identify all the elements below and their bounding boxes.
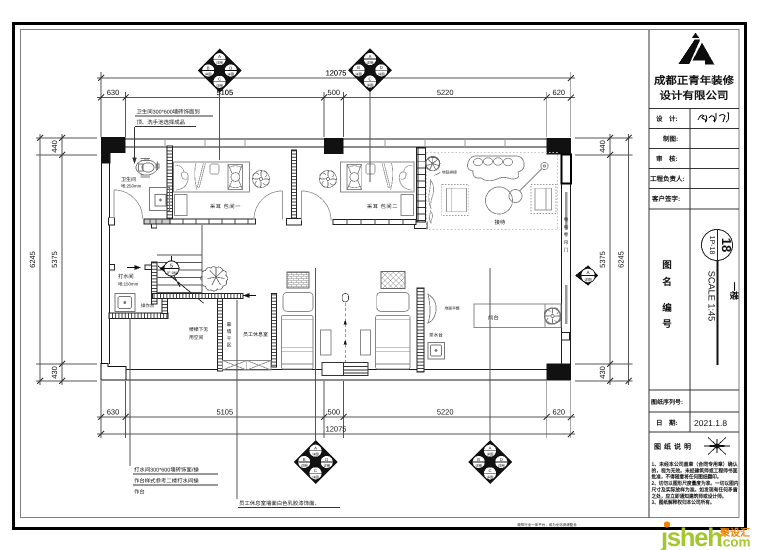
svg-text:详图: 详图 [205, 73, 212, 77]
svg-text:之处，应立即通知建筑师或设计师。: 之处，应立即通知建筑师或设计师。 [652, 493, 727, 500]
wall room2-right ladder [417, 148, 426, 227]
svg-text:详图: 详图 [367, 61, 374, 65]
room1 door leaf+arc [254, 191, 283, 220]
designer signature scribble [698, 112, 729, 122]
svg-text:2、切勿以图形尺度量度为准。一切以图内: 2、切勿以图形尺度量度为准。一切以图内 [652, 480, 739, 487]
svg-text:图纸说明: 图纸说明 [654, 442, 694, 451]
svg-text:员工休息室墙面白色乳胶漆饰面、: 员工休息室墙面白色乳胶漆饰面、 [239, 500, 320, 507]
svg-text:500: 500 [328, 88, 341, 97]
svg-text:C: C [314, 468, 317, 473]
svg-text:12075: 12075 [326, 69, 347, 78]
svg-text:630: 630 [107, 88, 120, 97]
leader to toilet [133, 127, 136, 163]
leader line marker3 [315, 268, 317, 440]
annotation toilet tiles top [135, 109, 213, 127]
svg-text:6245: 6245 [28, 251, 37, 268]
svg-text:A: A [314, 446, 317, 451]
top exterior wall [101, 139, 571, 147]
row labels 设计/制图/审核/工程负责人/客户签字 [650, 115, 685, 203]
svg-text:C: C [218, 77, 221, 82]
svg-text:卫生间: 卫生间 [121, 176, 136, 183]
svg-text:详图: 详图 [227, 73, 234, 77]
tea sink [428, 343, 445, 360]
svg-text:详图: 详图 [312, 453, 319, 457]
svg-text:3、图纸解释权归本公司所有。: 3、图纸解释权归本公司所有。 [652, 499, 715, 506]
svg-text:茶水台: 茶水台 [429, 333, 443, 338]
column bottom-left outlined [101, 364, 126, 381]
staff sofa B seats [376, 292, 411, 369]
column top-right (620) [547, 138, 571, 155]
compass star [702, 437, 733, 456]
elevation marker bottom-2 [468, 440, 512, 484]
elevation marker bottom-1 [294, 440, 338, 484]
svg-text:员工休息室: 员工休息室 [243, 331, 268, 338]
toilet door leaf+arc [114, 190, 143, 219]
water room sink [115, 294, 135, 312]
svg-text:成都正青年装修: 成都正青年装修 [654, 74, 735, 87]
plant by stairs [201, 267, 228, 291]
counter 操作台 side [162, 299, 168, 314]
svg-text:B: B [357, 65, 360, 70]
svg-text:靠墙干区: 靠墙干区 [226, 321, 231, 349]
left exterior wall [102, 153, 110, 364]
svg-text:详图: 详图 [584, 277, 592, 282]
room1 ceiling fan [252, 170, 270, 188]
svg-text:5105: 5105 [216, 88, 233, 97]
leader staff room [236, 300, 238, 499]
staff sofa A seats [282, 292, 314, 369]
leader water room [129, 318, 131, 466]
svg-text:顶、洗手池选择成品: 顶、洗手池选择成品 [137, 119, 186, 126]
notes small text [651, 461, 739, 506]
svg-text:详图: 详图 [301, 464, 308, 468]
svg-text:5105: 5105 [216, 408, 233, 417]
svg-text:6245: 6245 [617, 251, 626, 268]
room1 bed platform [174, 162, 250, 192]
svg-text:批准，不得随意将任何图纸翻印。: 批准，不得随意将任何图纸翻印。 [652, 474, 722, 481]
dimension left 440/5375/430 + 6245 [36, 134, 97, 385]
desk fan circle [544, 308, 560, 324]
svg-text:地:250mm: 地:250mm [121, 184, 142, 189]
svg-text:500: 500 [328, 408, 341, 417]
svg-text:编: 编 [662, 302, 672, 314]
rolling door panel [565, 192, 568, 230]
corridor wall segment west [144, 219, 256, 224]
reception round table [486, 187, 523, 214]
front desk 前台 [474, 304, 561, 328]
svg-text:440: 440 [50, 140, 59, 153]
svg-text:尺寸及实际放样为准。如发现有任何矛盾: 尺寸及实际放样为准。如发现有任何矛盾 [651, 486, 739, 493]
svg-text:B: B [303, 457, 306, 462]
sheet number circle 18 / 1P-18 [702, 230, 735, 261]
svg-text:18: 18 [719, 238, 734, 252]
stair section line [158, 266, 204, 303]
column top-mid (500) [324, 138, 344, 154]
stair marker circle 5 [160, 256, 180, 276]
svg-text:详图: 详图 [323, 464, 330, 468]
svg-text:详图: 详图 [498, 464, 505, 468]
room2 headrest [366, 164, 375, 174]
svg-text:建筑行业一体平台，成为全站资源整合: 建筑行业一体平台，成为全站资源整合 [517, 523, 577, 527]
desk fan blades [544, 307, 562, 325]
svg-text:详图: 详图 [367, 84, 374, 88]
dimension bottom 630/5105/500/5220/620 [97, 381, 575, 438]
wall tea-area [417, 288, 424, 372]
svg-text:楼梯下无: 楼梯下无 [189, 326, 208, 333]
room1 bedside cabinet [175, 195, 188, 216]
svg-text:工程负责人:: 工程负责人: [650, 175, 685, 183]
annotation water room bottom [133, 467, 218, 496]
staff sofa A side stool [321, 330, 332, 355]
svg-text:设计有限公司: 设计有限公司 [660, 89, 729, 102]
jsheh.com watermark logo [660, 521, 751, 550]
reception armchair east [531, 185, 556, 214]
svg-text:采耳 包间二: 采耳 包间二 [367, 203, 398, 210]
svg-text:用空间: 用空间 [189, 334, 204, 341]
stair wall stub [145, 265, 152, 270]
wall room1/room2 [292, 150, 297, 218]
svg-text:430: 430 [50, 366, 59, 379]
column top-left (630) [101, 137, 126, 153]
arrow west at wall end [244, 294, 256, 298]
svg-text:图纸序列号:: 图纸序列号: [651, 398, 683, 406]
reception armchair west [442, 185, 468, 216]
reception curved sofa [468, 156, 525, 181]
svg-text:打水间: 打水间 [118, 273, 134, 280]
wall room1/room2 T-foot [287, 219, 302, 226]
desk fan cell divider [544, 304, 546, 328]
wall toilet-right tiled [167, 146, 173, 222]
leader line marker1 [219, 92, 221, 160]
room2 bed platform [341, 162, 415, 192]
svg-text:1F-0M: 1F-0M [166, 271, 176, 275]
elevation marker top-1 [198, 49, 242, 93]
svg-text:SCALE 1:45: SCALE 1:45 [707, 271, 717, 322]
sheet-name section 图 名 编 号 [662, 260, 672, 330]
svg-text:一楼: 一楼 [729, 282, 739, 301]
corridor wall segment east [333, 220, 416, 225]
wall room2-right foot [415, 222, 428, 229]
svg-text:630: 630 [107, 408, 120, 417]
svg-text:5220: 5220 [437, 408, 454, 417]
stair wall [152, 262, 158, 304]
svg-text:ȷsheh: ȷsheh [660, 524, 722, 550]
svg-text:详图: 详图 [475, 464, 482, 468]
svg-text:A: A [369, 54, 372, 59]
svg-text:详图: 详图 [487, 453, 494, 457]
column top-left lower lobe [101, 153, 111, 163]
door jamb block left wall [109, 218, 115, 225]
svg-text:采耳 包间一: 采耳 包间一 [210, 203, 241, 210]
entry mat bottom [322, 363, 368, 376]
svg-text:打水间300*600墙砖饰面/操: 打水间300*600墙砖饰面/操 [134, 467, 199, 474]
svg-text:440: 440 [598, 140, 607, 153]
reception plant [426, 156, 440, 170]
corridor wall foot [151, 224, 156, 228]
svg-text:详图: 详图 [378, 72, 385, 76]
leader line marker4 [489, 268, 491, 440]
svg-text:日 期:: 日 期: [656, 419, 678, 427]
column bottom-right [547, 364, 571, 381]
floor mat X pattern [223, 361, 272, 371]
svg-text:5375: 5375 [598, 251, 607, 268]
room1 headrest [210, 164, 219, 174]
route arrowheads [344, 320, 347, 345]
elevation marker top-2 [348, 48, 392, 92]
svg-text:5375: 5375 [50, 251, 59, 268]
wall staffroom-west [272, 294, 277, 368]
svg-text:详图: 详图 [355, 72, 362, 76]
company logo triangle mark [678, 33, 714, 65]
svg-text:制图:: 制图: [663, 135, 678, 143]
svg-text:D: D [500, 457, 503, 462]
svg-text:A: A [489, 446, 492, 451]
svg-text:详图: 详图 [312, 475, 319, 479]
svg-text:聚设汇: 聚设汇 [719, 527, 750, 539]
room2 door leaf+arc [302, 191, 332, 221]
room2 chaise curves [382, 163, 413, 190]
stair treads [157, 225, 202, 295]
svg-text:详图: 详图 [216, 61, 223, 65]
room2 bedside cabinet [401, 195, 414, 216]
svg-text:卫生间300*600墙砖饰面到: 卫生间300*600墙砖饰面到 [137, 109, 200, 116]
svg-text:的，视为无效。未经建筑师或工程师书面: 的，视为无效。未经建筑师或工程师书面 [652, 467, 739, 474]
toilet wc [136, 159, 159, 178]
svg-text:名: 名 [662, 276, 672, 288]
svg-text:D: D [380, 65, 383, 70]
svg-text:1、未经本公司盖章（合同专用章）确认: 1、未经本公司盖章（合同专用章）确认 [652, 461, 739, 468]
counter 操作台 front [109, 313, 168, 319]
door detail marker A [575, 266, 598, 286]
column right upper outlined [561, 155, 571, 184]
room2 ceiling fan [319, 170, 337, 188]
svg-text:接待: 接待 [495, 219, 506, 226]
svg-text:详图: 详图 [487, 475, 494, 479]
svg-text:B: B [207, 65, 210, 70]
svg-text:1P-18: 1P-18 [708, 236, 715, 255]
svg-text:操作台: 操作台 [141, 303, 155, 308]
title block grid [649, 30, 739, 518]
rolling door panel lower [565, 285, 568, 324]
svg-text:430: 430 [598, 366, 607, 379]
svg-text:2021.1.8: 2021.1.8 [694, 418, 727, 428]
room2 chair-pad X [347, 165, 362, 190]
svg-text:620: 620 [553, 88, 566, 97]
dimension right 440/5375/430 + 6245 [575, 134, 633, 385]
svg-text:A: A [218, 54, 221, 59]
svg-text:号: 号 [662, 319, 672, 330]
bottom exterior wall [101, 370, 571, 381]
tea area fan-leaf [428, 294, 436, 323]
svg-text:C: C [488, 468, 491, 473]
svg-text:D: D [229, 65, 232, 70]
svg-text:图: 图 [662, 260, 672, 271]
corridor guide dashed route [342, 294, 348, 369]
svg-text:作台样式参考二楼打水间操: 作台样式参考二楼打水间操 [134, 478, 199, 485]
svg-text:地毯拼接: 地毯拼接 [442, 170, 457, 175]
door track end box [562, 333, 570, 340]
svg-text:5220: 5220 [437, 88, 454, 97]
svg-text:地面平整: 地面平整 [445, 306, 460, 311]
svg-text:审 核:: 审 核: [656, 155, 678, 163]
svg-text:620: 620 [553, 408, 566, 417]
curtain leaves by wall [429, 180, 434, 224]
room1 chair-pad X [228, 165, 243, 190]
svg-text:地:150mm: 地:150mm [118, 282, 139, 287]
wall dry-zone [218, 299, 223, 372]
vertical rule under circle [717, 261, 719, 366]
lamp + leader [519, 162, 548, 191]
svg-text:设 计:: 设 计: [656, 115, 678, 123]
svg-text:5: 5 [170, 264, 173, 270]
water-room fixture on wall [110, 265, 115, 271]
svg-text:D: D [325, 457, 328, 462]
staff sofa B table weave [381, 272, 405, 289]
leader line marker2 [369, 92, 371, 182]
svg-text:B: B [477, 457, 480, 462]
annotation staff room bottom [238, 500, 340, 508]
svg-text:电动卷帘门: 电动卷帘门 [563, 217, 569, 255]
svg-text:C: C [368, 76, 371, 81]
dimension top overall 12075 [97, 72, 575, 137]
staff sofa A table brick [287, 272, 309, 288]
svg-text:12075: 12075 [326, 425, 347, 434]
room1 chaise curves [175, 163, 206, 190]
reception carpet dashed [427, 153, 558, 230]
svg-text:客户签字:: 客户签字: [652, 195, 680, 203]
svg-text:作台: 作台 [134, 489, 145, 496]
small arrow to stairs [127, 266, 140, 270]
wall under stairs [153, 294, 244, 299]
right exterior wall [562, 184, 571, 365]
toilet shower box [150, 188, 170, 211]
staff sofa B side stool [360, 330, 370, 355]
